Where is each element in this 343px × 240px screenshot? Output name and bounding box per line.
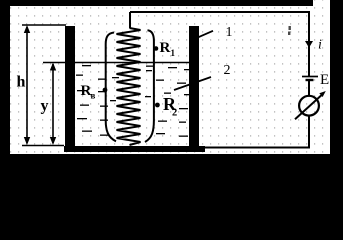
node dot R1 [154,46,159,51]
glass tube right wall [145,30,154,142]
pointer line to 1 [197,31,213,38]
svg-text:y: y [41,98,49,115]
water hatching dashes [76,65,191,137]
svg-text:E: E [320,72,329,88]
svg-text:i: i [318,38,322,53]
bottom wire [204,147,310,149]
svg-text:1: 1 [226,25,233,40]
battery long plate [302,76,318,78]
heater coil lead [129,12,131,28]
battery short plate [306,79,314,81]
svg-text:2: 2 [172,108,177,119]
h dimension arrow [26,27,28,143]
node dot R2 [155,103,160,108]
wire meter to bottom [308,116,310,149]
svg-text:h: h [17,74,26,91]
h top tick line [22,24,66,26]
current arrow i [305,41,313,48]
meter needle [295,94,323,119]
water surface line [43,62,192,64]
pointer line to 2 [174,77,211,90]
tank right wall [189,26,199,148]
white notch top-right [313,0,330,7]
tank bottom [64,146,205,152]
meter circle [299,96,319,116]
node dot Rb [103,88,108,93]
page background black [0,0,343,178]
svg-text:в: в [91,91,96,101]
stray mark [288,26,291,35]
bottom tick line [22,145,64,147]
wire battery to meter [308,81,310,96]
heater coil zigzag [117,28,141,145]
y dimension arrow [52,64,54,143]
top wire [130,12,309,76]
svg-text:2: 2 [224,63,231,78]
svg-text:1: 1 [171,48,176,58]
glass tube left wall [106,33,116,142]
dotted white canvas [10,6,330,154]
tank left wall [65,26,75,148]
svg-text:R: R [160,40,171,56]
